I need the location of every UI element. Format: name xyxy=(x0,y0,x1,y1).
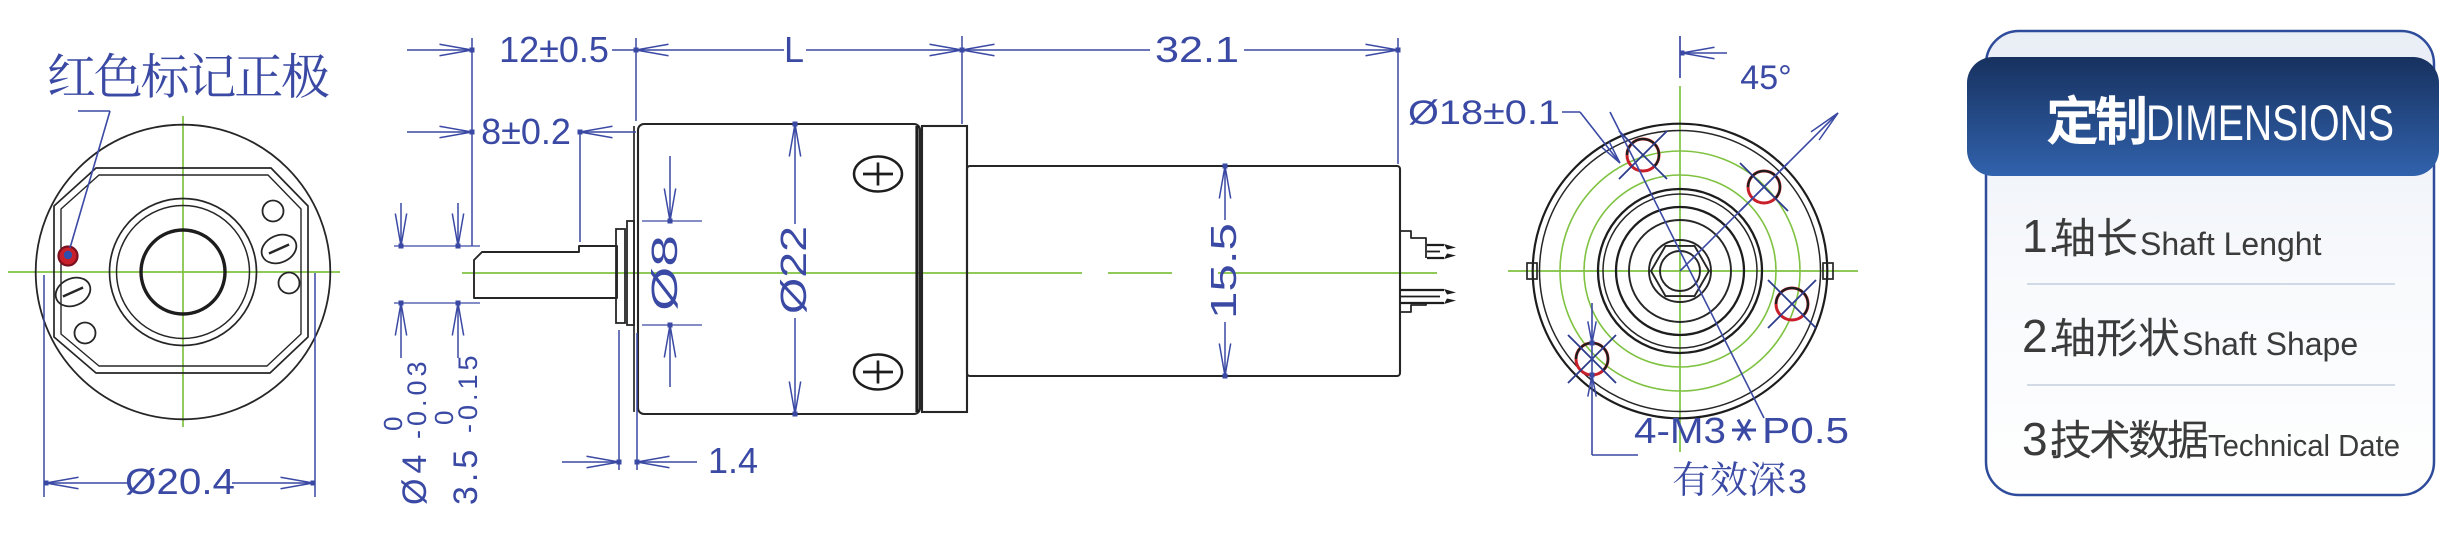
svg-text:0: 0 xyxy=(429,411,459,425)
svg-text:3: 3 xyxy=(1788,463,1807,501)
svg-text:8±0.2: 8±0.2 xyxy=(481,111,571,152)
svg-text:DIMENSIONS: DIMENSIONS xyxy=(2146,95,2394,151)
svg-text:32.1: 32.1 xyxy=(1155,29,1239,70)
svg-text:Shaft Shape: Shaft Shape xyxy=(2182,326,2358,362)
svg-text:4-M3: 4-M3 xyxy=(1634,410,1726,451)
svg-text:12±0.5: 12±0.5 xyxy=(499,29,609,70)
svg-text:1.4: 1.4 xyxy=(708,440,758,481)
svg-text:Ø20.4: Ø20.4 xyxy=(125,461,235,502)
svg-text:P0.5: P0.5 xyxy=(1762,410,1849,451)
svg-text:15.5: 15.5 xyxy=(1203,223,1244,319)
svg-text:2.: 2. xyxy=(2022,310,2060,362)
svg-text:Ø4: Ø4 xyxy=(396,450,434,505)
svg-text:Ø22: Ø22 xyxy=(773,226,814,314)
svg-text:Shaft Lenght: Shaft Lenght xyxy=(2140,226,2322,262)
svg-text:3.5: 3.5 xyxy=(447,446,485,505)
svg-text:Ø18±0.1: Ø18±0.1 xyxy=(1408,94,1560,132)
svg-text:Ø8: Ø8 xyxy=(644,235,685,311)
svg-text:1.: 1. xyxy=(2022,210,2060,262)
svg-text:L: L xyxy=(784,29,804,70)
svg-text:45°: 45° xyxy=(1740,59,1791,97)
svg-text:0: 0 xyxy=(378,417,408,431)
svg-text:Technical Date: Technical Date xyxy=(2208,428,2400,463)
